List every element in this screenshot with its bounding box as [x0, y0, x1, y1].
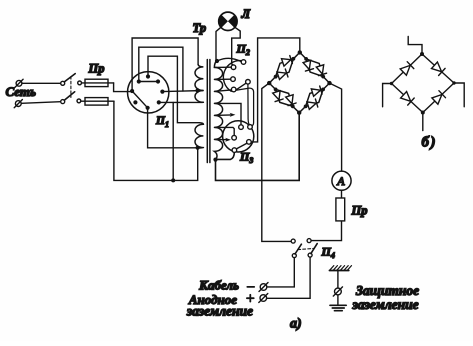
П4 blade left	[295, 244, 301, 254]
svg-text:а): а)	[290, 317, 302, 332]
wire П2 contact D to П3 top-right contact	[236, 88, 254, 125]
wire lamp right to П2 contact	[232, 27, 241, 65]
rectifier bridge arm bottom-right (diodes)	[299, 83, 329, 113]
primary bottom tap junction	[196, 146, 200, 150]
wire ammeter to fuse and down to П4	[311, 190, 341, 240]
secondary top junction	[215, 59, 219, 63]
switch mechanical link (dashed)	[70, 77, 72, 98]
П1 contact bottom-left	[133, 100, 137, 104]
П1 contact top-center	[146, 74, 150, 78]
wire П1 top-center contact inner loop to lower primary	[148, 56, 200, 123]
wire top fuse to П1 left contact	[114, 83, 133, 92]
rectifier bridge arm bottom-left (diodes)	[269, 83, 299, 113]
ammeter A body	[332, 171, 351, 190]
svg-text:Сеть: Сеть	[6, 84, 36, 99]
secondary bottom junction	[213, 158, 217, 162]
П3 contact right	[247, 140, 252, 145]
small bridge diode bottom-left	[392, 84, 423, 113]
svg-text:Л: Л	[241, 7, 251, 21]
rectifier bridge arm top-left (diodes)	[269, 52, 300, 83]
wire tap to bottom bus	[172, 102, 174, 180]
small bridge node left	[390, 82, 393, 85]
earth symbol	[330, 305, 346, 310]
transformer secondary winding	[214, 61, 222, 160]
switch B contact top	[61, 81, 65, 85]
secondary tap to П2 contact D	[214, 90, 231, 92]
small bridge wire top	[408, 36, 422, 54]
wire П1 bottom-right contact to primary	[159, 101, 203, 103]
wire П1 bottom-center to primary bottom tap	[148, 108, 198, 148]
П3 contact top-right	[248, 125, 253, 130]
secondary tap to П3 top-left contact	[214, 103, 241, 124]
svg-text:заземление: заземление	[352, 297, 419, 312]
bridge node left	[267, 81, 271, 85]
wire П3 right contact to bridge top node	[251, 38, 300, 142]
small bridge node top	[420, 52, 424, 56]
П1 contact right	[160, 90, 164, 94]
wire secondary bottom to П3 bottom contact	[216, 153, 235, 160]
П2 contact A	[241, 60, 246, 65]
svg-text:б): б)	[422, 135, 437, 151]
plus sign	[247, 297, 254, 299]
lamp Л body	[219, 12, 237, 30]
small bridge diode bottom-right	[423, 83, 454, 113]
wire П2 wiper down to П3 top-right contact	[248, 84, 250, 125]
selector П3 body	[223, 121, 254, 152]
minus output terminal	[259, 283, 268, 292]
П2 contact B	[231, 65, 236, 70]
П1 contact top-right	[156, 79, 160, 83]
lamp Л cross left sector	[219, 15, 228, 28]
chassis hatching	[330, 266, 352, 271]
chassis bar	[329, 270, 348, 272]
П4 blade right	[311, 244, 317, 254]
svg-text:заземление: заземление	[186, 304, 253, 319]
transformer primary winding lower	[195, 123, 203, 148]
switch blade top	[64, 74, 75, 82]
rotary switch П1 body	[128, 72, 169, 113]
П2 contact D	[231, 87, 236, 92]
junction on bottom bus	[171, 178, 175, 182]
wire П4 lower-right to plus terminal	[267, 257, 310, 298]
П1 wiper bar top	[139, 81, 158, 83]
wire mains top to switch	[22, 82, 60, 84]
П3 wiper	[236, 143, 247, 149]
plus output terminal	[259, 294, 268, 303]
wire П1 right contact to primary tap	[162, 91, 203, 92]
transformer primary winding upper	[195, 65, 203, 103]
secondary tap to П2 contact B	[214, 66, 231, 68]
secondary tap arrow (wiper position)	[214, 114, 231, 117]
bridge node bottom	[297, 111, 301, 115]
П4 contact upper-left	[291, 239, 295, 243]
П1 contact left	[130, 89, 134, 93]
minus sign	[247, 286, 254, 288]
svg-text:Тр: Тр	[193, 21, 207, 35]
secondary tap arrow lower	[214, 138, 227, 140]
fuse Пр bottom: wire	[81, 100, 114, 102]
wire bottom fuse down to bottom bus	[114, 101, 198, 180]
primary tap junction	[195, 88, 199, 92]
П2 wiper pivot	[246, 80, 251, 85]
small bridge diode top-left	[392, 54, 423, 84]
svg-text:Пр: Пр	[351, 204, 368, 218]
П4 contact lower-right	[308, 253, 312, 257]
П4 contact lower-left	[292, 254, 296, 258]
П4 mechanical link (dashed)	[298, 248, 314, 249]
svg-text:А: А	[336, 174, 345, 188]
П1 contact bottom-center	[146, 106, 150, 110]
П4 contact upper-right	[307, 239, 311, 243]
П2 curve to secondary top	[218, 58, 241, 61]
small bridge node right	[452, 81, 455, 84]
bridge node top	[298, 50, 302, 54]
wire terminal to earth	[337, 295, 339, 305]
small bridge diode top-right	[422, 54, 454, 83]
secondary tap to П2 contact C	[214, 78, 230, 80]
wire П1 top-left contact loop	[139, 47, 183, 91]
wire bridge right node to ammeter	[330, 83, 342, 171]
fuse contact bottom	[77, 99, 81, 103]
wire chassis to earth terminal	[337, 271, 339, 289]
П1 wiper arm	[132, 91, 148, 108]
fuse Пр bottom: body	[85, 98, 108, 106]
small bridge wire bottom	[422, 113, 424, 131]
small bridge node bottom	[421, 111, 425, 115]
П3 contact top-left	[239, 125, 244, 130]
small bridge wire right	[454, 83, 464, 107]
wire lamp left to secondary top	[216, 27, 221, 61]
П2 wiper arm	[236, 83, 246, 90]
mains terminal top (Сеть)	[15, 79, 23, 87]
lamp Л cross right sector	[228, 15, 237, 28]
svg-text:Кабель: Кабель	[198, 278, 239, 293]
wire П1 left contact to primary top tap (outer loop)	[132, 38, 198, 91]
fuse Пр top: wire	[82, 82, 114, 84]
П3 contact mid-left	[232, 135, 237, 140]
wire mains bottom to switch	[22, 102, 61, 104]
fuse Пр (output) body	[336, 198, 345, 221]
wire П4 lower-left to minus terminal	[267, 258, 294, 287]
П1 contact top-left	[137, 79, 141, 83]
wire secondary bottom bus to bridge bottom	[216, 115, 300, 180]
svg-text:Защитное: Защитное	[355, 283, 419, 298]
mains terminal bottom (Сеть)	[14, 100, 22, 108]
switch B contact bottom	[61, 100, 65, 104]
П3 contact bottom	[232, 148, 237, 153]
П2 sector arc	[223, 61, 242, 92]
fuse contact top	[78, 81, 82, 85]
rectifier bridge arm top-right (diodes)	[300, 52, 330, 83]
wire bridge left node down to П4	[262, 83, 291, 241]
small bridge wire left	[383, 84, 392, 107]
switch blade bottom	[64, 92, 74, 100]
transformer core	[206, 60, 208, 163]
earth terminal	[333, 287, 342, 296]
fuse Пр top: body	[85, 79, 108, 86]
bridge node right	[327, 81, 331, 85]
secondary tap to П3 mid-left contact	[214, 127, 234, 135]
П1 contact bottom-right	[157, 100, 161, 104]
svg-text:Пр: Пр	[88, 62, 105, 76]
П2 contact C	[231, 77, 236, 82]
